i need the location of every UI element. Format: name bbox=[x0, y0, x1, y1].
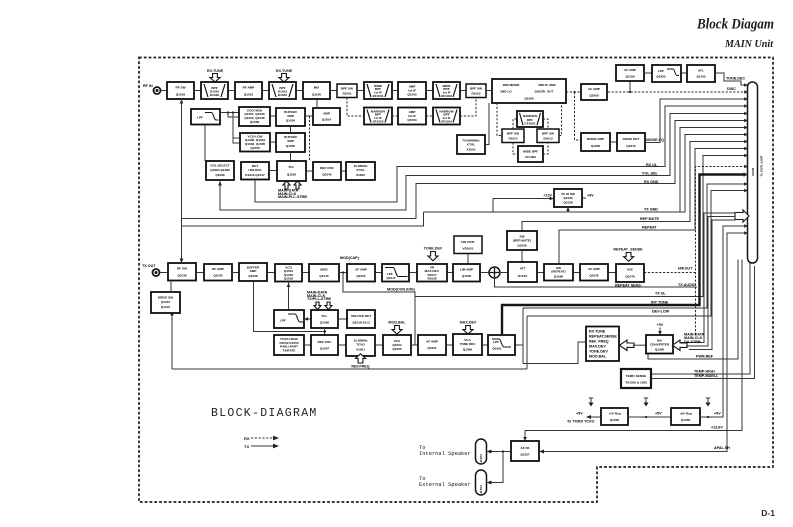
block DRIVE SW Q1037 Q1047 bbox=[151, 292, 180, 313]
svg-text:D1030: D1030 bbox=[210, 93, 219, 97]
svg-text:J1004: J1004 bbox=[479, 485, 483, 494]
block D/A CONVERTER Q1095 bbox=[646, 335, 673, 354]
wire LPF to VCO-HIGH (two taps) bbox=[220, 112, 239, 114]
wire VCO down to LPF bbox=[288, 282, 290, 311]
svg-text:Q1814: Q1814 bbox=[322, 118, 332, 122]
block 15.36MHz X'TAL X1003 bbox=[346, 162, 375, 180]
wire X1001 to VCA bbox=[375, 344, 383, 346]
svg-text:D-1: D-1 bbox=[761, 508, 775, 518]
svg-text:TX OUT: TX OUT bbox=[142, 264, 156, 268]
wire TX UL to connector bbox=[495, 278, 698, 287]
block REF OSC Q1045 bbox=[313, 162, 341, 180]
block +9V Reg Q1060 bbox=[671, 408, 700, 425]
block NOISE DET Q1915 bbox=[617, 133, 645, 151]
svg-text:REF OSC: REF OSC bbox=[318, 340, 333, 344]
svg-text:(REPEAT): (REPEAT) bbox=[551, 270, 565, 274]
wire +9V out bbox=[700, 416, 711, 418]
svg-text:TX: TX bbox=[244, 444, 249, 449]
block TEMP SENSE TH1030 bbox=[621, 369, 651, 388]
block LPF (RX PLL loop) bbox=[191, 109, 220, 125]
filter WIDE BPF CF1002 bbox=[518, 146, 543, 162]
svg-text:NOISE.SQ: NOISE.SQ bbox=[646, 138, 664, 142]
arrow RX.TUNE into BPF2 bbox=[279, 74, 289, 83]
arrow MAX.DEV into VCA TONE DEV bbox=[463, 326, 473, 335]
wire LPF to PLL Q1006 bbox=[304, 318, 311, 320]
block AF AMP Q1051 bbox=[418, 335, 446, 355]
svg-text:NOISE AMP: NOISE AMP bbox=[587, 137, 604, 141]
svg-text:To CNTL-UNIT: To CNTL-UNIT bbox=[760, 155, 764, 176]
wire NOISE.SQ to connector bbox=[645, 99, 745, 143]
svg-text:RX.TUNE: RX.TUNE bbox=[589, 329, 606, 333]
wire Q1500 to XF1002 bbox=[426, 90, 433, 92]
svg-text:Q1950: Q1950 bbox=[591, 144, 601, 148]
wire LPF branch down to VCO-LOW bbox=[233, 113, 239, 139]
block RF AMP Q1035 bbox=[204, 264, 232, 281]
svg-text:BPF SW: BPF SW bbox=[470, 86, 482, 90]
wire RF AMP to buffer bbox=[232, 272, 239, 274]
block BPF SW D1913 bbox=[537, 129, 559, 143]
svg-text:MOD.BAL: MOD.BAL bbox=[589, 354, 607, 358]
filter NARROW BPF 1st IF XF1503 bbox=[364, 108, 392, 125]
supply arrow 1 bbox=[588, 398, 593, 407]
svg-text:MAIN Unit: MAIN Unit bbox=[724, 39, 774, 50]
svg-text:BLOCK-DIAGRAM: BLOCK-DIAGRAM bbox=[211, 407, 318, 420]
wire PLL to REF OSC bbox=[306, 170, 313, 172]
svg-text:CF1002: CF1002 bbox=[525, 155, 536, 159]
svg-text:Q1017: Q1017 bbox=[386, 276, 396, 280]
wire buffer Q1034 down to Q1050 bbox=[290, 126, 292, 133]
bus arrow MAIN-DATA into connector bbox=[735, 210, 749, 222]
block BPF SW D1501 bbox=[337, 84, 357, 98]
svg-text:To TX/RX TCXO: To TX/RX TCXO bbox=[567, 420, 595, 424]
block BPF SW D1502 bbox=[466, 84, 486, 98]
block AF AMP Q1600 bbox=[581, 84, 607, 100]
svg-text:Q1060: Q1060 bbox=[681, 418, 691, 422]
svg-text:RF IN: RF IN bbox=[143, 84, 153, 88]
wire XF1503 to Q1503 bbox=[392, 115, 398, 117]
svg-text:BPF SW: BPF SW bbox=[542, 131, 554, 135]
svg-text:RX.TUNE: RX.TUNE bbox=[207, 69, 224, 73]
block RF SW Q1003 bbox=[167, 82, 194, 99]
filter WIDE BPF 1st IF XF1002 bbox=[433, 82, 460, 99]
block MIX Q1100 bbox=[303, 82, 330, 99]
wire PWR.REF riser bbox=[648, 260, 738, 360]
svg-text:Q1038: Q1038 bbox=[248, 274, 258, 278]
svg-text:Internal Speaker: Internal Speaker bbox=[419, 451, 471, 457]
svg-text:MOD.BAL: MOD.BAL bbox=[388, 321, 406, 325]
wire TEMP-MAIN riser bbox=[651, 266, 755, 379]
svg-text:Q1955: Q1955 bbox=[656, 75, 666, 79]
svg-text:Q1030: Q1030 bbox=[563, 196, 573, 200]
label MAIN-DATA MAIN-CLK DA-STRB bbox=[684, 333, 705, 344]
svg-text:Q1036: Q1036 bbox=[177, 273, 187, 277]
block VCO Q1031 Q1032 Q1033 bbox=[275, 264, 302, 282]
svg-text:REF.FREQ: REF.FREQ bbox=[351, 365, 369, 369]
svg-text:CF1001: CF1001 bbox=[524, 122, 535, 126]
svg-text:Q1051: Q1051 bbox=[427, 346, 437, 350]
wire INT TONE to connector bbox=[523, 184, 745, 308]
svg-text:Q1994-Q1996: Q1994-Q1996 bbox=[210, 168, 230, 172]
dashed page border bbox=[139, 58, 773, 503]
svg-text:LIM CNTL: LIM CNTL bbox=[461, 240, 476, 244]
block AF AMP Q1109 bbox=[616, 65, 644, 81]
block LPF Q1017 bbox=[382, 264, 409, 282]
svg-text:TX/RATE: TX/RATE bbox=[282, 348, 295, 352]
wire cascade line4 to connector bbox=[182, 212, 424, 226]
wire TCXO to REF OSC bbox=[304, 344, 311, 346]
block 2ND MIXER 2ND IF AMP Q1900 bbox=[492, 79, 566, 103]
svg-text:REPEAT SENS-: REPEAT SENS- bbox=[615, 284, 643, 288]
svg-text:AMP: AMP bbox=[287, 139, 294, 143]
wire RF AMP to BPF2 bbox=[262, 90, 269, 92]
svg-text:Q1900: Q1900 bbox=[524, 96, 534, 100]
block NOISE AMP Q1950 bbox=[581, 133, 610, 151]
svg-text:PLL: PLL bbox=[289, 165, 295, 169]
wire REF OSC to X1001 bbox=[338, 344, 346, 346]
svg-text:X'TAL: X'TAL bbox=[356, 168, 365, 172]
svg-text:LPF: LPF bbox=[197, 116, 203, 120]
svg-text:J1003: J1003 bbox=[479, 454, 483, 463]
svg-text:Q1034: Q1034 bbox=[286, 119, 296, 123]
wire DEV-LOW to connector bbox=[527, 191, 745, 317]
wire Q1503 to XF1504 bbox=[426, 115, 433, 117]
svg-text:Q1005: Q1005 bbox=[610, 418, 620, 422]
svg-text:Q1001: Q1001 bbox=[356, 274, 366, 278]
svg-text:+5V: +5V bbox=[655, 412, 662, 416]
wire D1502 to 2nd mixer bbox=[486, 90, 492, 92]
svg-text:TONE.DEV: TONE.DEV bbox=[424, 247, 443, 251]
wire TX GND to connector bbox=[424, 135, 745, 213]
block AF PA Q1057 bbox=[511, 441, 539, 461]
svg-text:RF AMP: RF AMP bbox=[243, 86, 255, 90]
wire dashed Q1900 to D1912 bbox=[497, 103, 502, 136]
wire VCO-LOW to buffer Q1050 bbox=[270, 141, 276, 143]
wire buffer to VCO bbox=[267, 272, 275, 274]
svg-text:MOD(CAP): MOD(CAP) bbox=[340, 256, 360, 260]
svg-text:Q1100: Q1100 bbox=[312, 92, 321, 96]
svg-text:+5V: +5V bbox=[657, 323, 664, 327]
wire LPF to VR MAX DEV bbox=[409, 272, 417, 274]
connector J1006 bbox=[748, 82, 758, 263]
svg-text:TX/PLL-STRB: TX/PLL-STRB bbox=[307, 297, 331, 301]
svg-text:Q1039: Q1039 bbox=[563, 200, 573, 204]
svg-text:Q1015: Q1015 bbox=[319, 274, 329, 278]
filter BPF D1010 bbox=[201, 82, 228, 99]
block 70.0900MHz X'TAL X1002 bbox=[457, 135, 485, 154]
svg-text:REF OSC: REF OSC bbox=[320, 166, 335, 170]
wire MIX to BPF SW D1501 bbox=[330, 90, 337, 92]
block LIM CNTL VR1051 bbox=[454, 236, 482, 254]
block TCXO select bbox=[274, 335, 304, 355]
svg-text:Q1090: Q1090 bbox=[554, 274, 564, 278]
label To External Speaker bbox=[419, 476, 471, 488]
svg-text:LPF: LPF bbox=[280, 319, 286, 323]
wire cascade line3 to connector bbox=[182, 121, 745, 219]
svg-text:APAL.SH: APAL.SH bbox=[714, 446, 730, 450]
block LIM AMP Q1046 bbox=[453, 264, 480, 282]
wire buffer Q1050 down to PLL bbox=[290, 152, 292, 161]
wire VCA TONE DEV to LPF Q1061 bbox=[482, 344, 488, 346]
arrow MOD.BAL into VCA bbox=[392, 326, 402, 335]
wire cascade line1 VOL.SELECT to connector bbox=[220, 114, 745, 211]
wire dashed D1912 to CF1002 bbox=[513, 143, 518, 155]
svg-text:MOD: MOD bbox=[320, 267, 328, 271]
wire Q1955 to AFL bbox=[681, 72, 687, 74]
wire LPF bottom to VOL.SELECT bbox=[204, 125, 206, 162]
svg-text:BPF SW: BPF SW bbox=[341, 86, 353, 90]
svg-text:Q1068: Q1068 bbox=[215, 173, 225, 177]
block TX HI SW Q1030 bbox=[554, 189, 582, 207]
svg-text:DRIVE SW: DRIVE SW bbox=[158, 295, 173, 299]
svg-text:Q1033: Q1033 bbox=[284, 276, 294, 280]
block AF AMP Q1001 bbox=[347, 264, 375, 282]
wire VCO to MOD bbox=[302, 272, 309, 274]
block SW REP MUTE Q1056 bbox=[507, 231, 537, 250]
svg-text:Q1026: Q1026 bbox=[589, 274, 599, 278]
svg-text:D1032: D1032 bbox=[278, 93, 287, 97]
wire VR to LIM AMP bbox=[447, 272, 453, 274]
wire dashed DISC line Q1900 to connector bbox=[566, 91, 748, 93]
svg-text:Q1046: Q1046 bbox=[462, 274, 472, 278]
svg-text:Q1500: Q1500 bbox=[407, 93, 417, 97]
summing junction bbox=[489, 267, 500, 278]
block VOL.SELECT Q1068 bbox=[206, 161, 234, 180]
svg-text:DEV-LOW: DEV-LOW bbox=[652, 310, 670, 314]
block AVC Q1076 bbox=[616, 264, 644, 282]
block BUFFER AMP Q1034 bbox=[276, 108, 305, 126]
wire RF SW to RF AMP bbox=[196, 272, 204, 274]
wire mod audio from AF AMP Q1001 node bbox=[343, 273, 415, 346]
svg-text:DA-STRB: DA-STRB bbox=[684, 340, 701, 344]
block VR MAX DEV bbox=[417, 264, 447, 282]
wire +5V out left bbox=[589, 416, 601, 418]
svg-text:D1913: D1913 bbox=[543, 137, 552, 141]
supply arrow 2 bbox=[643, 398, 648, 407]
wire LPF Q1061 output stub bbox=[515, 344, 523, 346]
block UNLOCK DET Q1018 bbox=[347, 310, 375, 328]
wire dashed VCO.SEL down to PLL bbox=[309, 116, 311, 161]
svg-text:RF SW: RF SW bbox=[177, 267, 187, 271]
wire AF PA audio input from right bbox=[539, 450, 544, 454]
connector J1004 bbox=[476, 470, 487, 495]
wire Q1109 junction on DISC line bbox=[629, 81, 631, 92]
wire dashed D1912 to CF1001 bbox=[513, 119, 517, 129]
wire summing to ATT bbox=[500, 272, 508, 274]
wire TEMP-HIGH riser bbox=[651, 263, 750, 374]
wire Q1109 to LPF Q1955 bbox=[644, 72, 652, 74]
svg-text:WIDE BPF: WIDE BPF bbox=[523, 149, 538, 153]
svg-text:Q1047: Q1047 bbox=[161, 305, 171, 309]
svg-text:NOISE DET: NOISE DET bbox=[623, 137, 640, 141]
svg-text:Q1915: Q1915 bbox=[626, 144, 636, 148]
svg-text:MAX.DEV: MAX.DEV bbox=[589, 344, 606, 348]
svg-text:Q1058: Q1058 bbox=[250, 120, 260, 124]
svg-text:2ND IF AMP: 2ND IF AMP bbox=[538, 83, 555, 87]
svg-text:Q1076: Q1076 bbox=[625, 274, 635, 278]
svg-text:ATT: ATT bbox=[520, 266, 526, 270]
arrow bus into D/A from right bbox=[673, 340, 688, 350]
terminal RF IN bbox=[154, 87, 161, 94]
svg-text:+9V Reg: +9V Reg bbox=[679, 412, 691, 416]
arrow TONE.DEV into VR bbox=[428, 252, 438, 261]
svg-text:External Speaker: External Speaker bbox=[419, 482, 471, 488]
wire dashed XF1504 up to D1502 bbox=[460, 98, 476, 117]
svg-text:HIF.OUT: HIF.OUT bbox=[678, 267, 693, 271]
svg-text:Q1059: Q1059 bbox=[250, 146, 260, 150]
block BPF SW D1912 bbox=[502, 129, 524, 143]
svg-text:DISC: DISC bbox=[727, 87, 736, 91]
svg-text:X1001: X1001 bbox=[356, 348, 365, 352]
svg-text:Q1061: Q1061 bbox=[492, 346, 502, 350]
svg-text:+5V: +5V bbox=[576, 412, 583, 416]
svg-text:AFL: AFL bbox=[698, 68, 704, 72]
svg-text:XF1503: XF1503 bbox=[373, 119, 384, 123]
svg-text:2ND MIXER: 2ND MIXER bbox=[503, 83, 521, 87]
wire BPF1 to RF AMP bbox=[228, 90, 235, 92]
wire dashed D1913 up to Q1900 bbox=[559, 103, 562, 136]
svg-text:TONE DEV: TONE DEV bbox=[460, 342, 477, 346]
svg-text:RX GND: RX GND bbox=[644, 180, 659, 184]
wire between regs bbox=[628, 416, 671, 418]
svg-text:MAX.DEV: MAX.DEV bbox=[460, 321, 477, 325]
block ATT R1233 bbox=[508, 262, 537, 282]
svg-text:DISCRI. OUT: DISCRI. OUT bbox=[535, 90, 554, 94]
block BUFFER AMP Q1038 bbox=[239, 263, 267, 281]
svg-text:AF AMP: AF AMP bbox=[624, 68, 636, 72]
wire MOD to AF AMP bbox=[339, 272, 347, 274]
svg-text:TX UL: TX UL bbox=[655, 292, 666, 296]
wire AF PA line riser bbox=[540, 233, 745, 452]
wire RF IN to RF SW bbox=[161, 90, 168, 92]
svg-text:REPEAT: REPEAT bbox=[642, 226, 657, 230]
svg-text:Q1007: Q1007 bbox=[320, 346, 330, 350]
svg-text:PWR.REF: PWR.REF bbox=[696, 355, 714, 359]
svg-text:AMP: AMP bbox=[287, 114, 294, 118]
block VCO-LOW bbox=[240, 133, 270, 152]
svg-text:D1501: D1501 bbox=[342, 92, 351, 96]
legend RX dashed arrow bbox=[244, 436, 279, 441]
svg-text:RX: RX bbox=[244, 436, 250, 441]
wire SW REP MUTE to ATT bbox=[521, 250, 523, 262]
svg-text:TEMP-HIGH: TEMP-HIGH bbox=[694, 370, 715, 374]
svg-text:2ND LO: 2ND LO bbox=[500, 90, 512, 94]
svg-text:REP MUTE: REP MUTE bbox=[640, 217, 660, 221]
block LPF Q1955 bbox=[652, 65, 681, 82]
block AMP 1st IF Q1503 bbox=[398, 108, 426, 125]
svg-text:X1003: X1003 bbox=[356, 173, 365, 177]
wire X1002 to Q1900 bbox=[485, 103, 489, 145]
svg-text:LPF: LPF bbox=[493, 340, 499, 344]
wire +9V reg riser bbox=[711, 226, 745, 417]
svg-text:AF AMP: AF AMP bbox=[355, 267, 367, 271]
svg-text:TH1030 & 1003: TH1030 & 1003 bbox=[625, 380, 647, 384]
svg-text:TONE.DEV: TONE.DEV bbox=[589, 349, 608, 353]
svg-text:XF1504: XF1504 bbox=[441, 119, 452, 123]
svg-text:TONE.DEC: TONE.DEC bbox=[726, 77, 745, 81]
svg-text:Q1095: Q1095 bbox=[655, 347, 665, 351]
arrow REPEAT SENSE into AVC bbox=[624, 253, 634, 262]
svg-text:Q1003: Q1003 bbox=[176, 92, 186, 96]
svg-text:Q1045: Q1045 bbox=[322, 172, 332, 176]
filter NARROW BPF 1st IF XF1504 bbox=[433, 108, 460, 125]
label To Internal Speaker bbox=[419, 445, 471, 457]
arrow bus D/A into list box bbox=[620, 340, 635, 350]
svg-text:X'TAL: X'TAL bbox=[467, 143, 476, 147]
connector J1003 bbox=[476, 439, 487, 464]
svg-text:AVC: AVC bbox=[627, 268, 634, 272]
svg-text:+5V Reg: +5V Reg bbox=[608, 412, 620, 416]
svg-text:TEMP-MAIN-L: TEMP-MAIN-L bbox=[694, 374, 719, 378]
wire XF1002 to BPF SW D1502 bbox=[460, 90, 466, 92]
supply arrow 3 bbox=[705, 398, 710, 407]
block RF AMP Q1013 bbox=[235, 82, 262, 99]
filter WIDE BPF 1st IF XF1001 bbox=[364, 82, 392, 99]
svg-text:XF1002: XF1002 bbox=[441, 94, 452, 98]
svg-text:RF SW: RF SW bbox=[176, 86, 186, 90]
wire D/A bus lines up to bus arrow bbox=[681, 213, 736, 343]
svg-text:TEMP..SENSE: TEMP..SENSE bbox=[626, 374, 646, 378]
block AMP Q1814 bbox=[313, 108, 340, 125]
wire TX buffer sense to PLL bbox=[254, 281, 326, 332]
wire LIM CNTL to LIM AMP bbox=[467, 254, 469, 265]
svg-text:VOL.SEL: VOL.SEL bbox=[642, 172, 659, 176]
wire dashed HIF.OUT AVC to connector bbox=[644, 272, 696, 274]
svg-text:Q1035: Q1035 bbox=[213, 274, 223, 278]
block +5V Reg Q1005 bbox=[601, 408, 628, 425]
wire D1501 to XF1001 bbox=[357, 90, 364, 92]
block MOD Q1015 bbox=[309, 264, 339, 282]
svg-text:UNLOCK DET: UNLOCK DET bbox=[351, 314, 371, 318]
svg-text:AF AMP: AF AMP bbox=[588, 267, 600, 271]
wire +13.8V riser bbox=[525, 260, 742, 431]
svg-text:AF PA: AF PA bbox=[520, 446, 530, 450]
wire dashed CF1002 to D1913 bbox=[543, 143, 548, 155]
block VCA Q1054 Q1055 bbox=[383, 335, 411, 355]
wire buffer Q1034 to AMP Q1814 bbox=[305, 115, 313, 117]
svg-text:MAIN-PLL-STRB: MAIN-PLL-STRB bbox=[278, 195, 307, 199]
wire thick TX.AUDIO bus bbox=[502, 175, 745, 335]
svg-text:REF_FREQ: REF_FREQ bbox=[589, 339, 609, 343]
block BUFFER AMP Q1050 bbox=[276, 133, 305, 152]
svg-text:VR1051: VR1051 bbox=[462, 246, 473, 250]
svg-text:X1002: X1002 bbox=[467, 147, 476, 151]
svg-text:AF AMP: AF AMP bbox=[588, 87, 600, 91]
wire TONE.DEC to connector bbox=[715, 73, 745, 85]
wire XF1001 to AMP Q1500 bbox=[392, 90, 398, 92]
wire REF OSC to X1003 bbox=[341, 170, 346, 172]
wire RF SW down the antenna line bbox=[181, 99, 183, 263]
svg-text:+9V: +9V bbox=[587, 194, 594, 198]
svg-text:TX.AUDIO: TX.AUDIO bbox=[678, 283, 696, 287]
wire VCO-HIGH to buffer bbox=[270, 115, 276, 117]
wire SW REPEAT to AF AMP bbox=[573, 272, 580, 274]
svg-text:Q1057: Q1057 bbox=[520, 452, 530, 456]
block RF SW Q1036 bbox=[168, 263, 196, 281]
label MAIN-DATA TX-PLL-STRB over PLL bbox=[307, 291, 332, 310]
svg-text:Q1055: Q1055 bbox=[392, 347, 402, 351]
wire ATT to SW REPEAT bbox=[537, 272, 544, 274]
wire cascade line2 DET UNLOCK to connector bbox=[255, 106, 745, 202]
arrow RX.TUNE into BPF1 bbox=[210, 74, 220, 83]
svg-text:D1502: D1502 bbox=[471, 92, 480, 96]
wire AF AMP to AVC bbox=[608, 272, 616, 274]
svg-text:RX.TUNE: RX.TUNE bbox=[276, 69, 293, 73]
wire REPEAT to connector bbox=[559, 149, 745, 265]
svg-text:R1036: R1036 bbox=[427, 276, 436, 280]
svg-text:MOD(CON./DIG): MOD(CON./DIG) bbox=[387, 288, 416, 292]
wire Q1950 to Q1915 bbox=[610, 141, 617, 143]
block AMP 1st IF Q1500 bbox=[398, 82, 426, 99]
